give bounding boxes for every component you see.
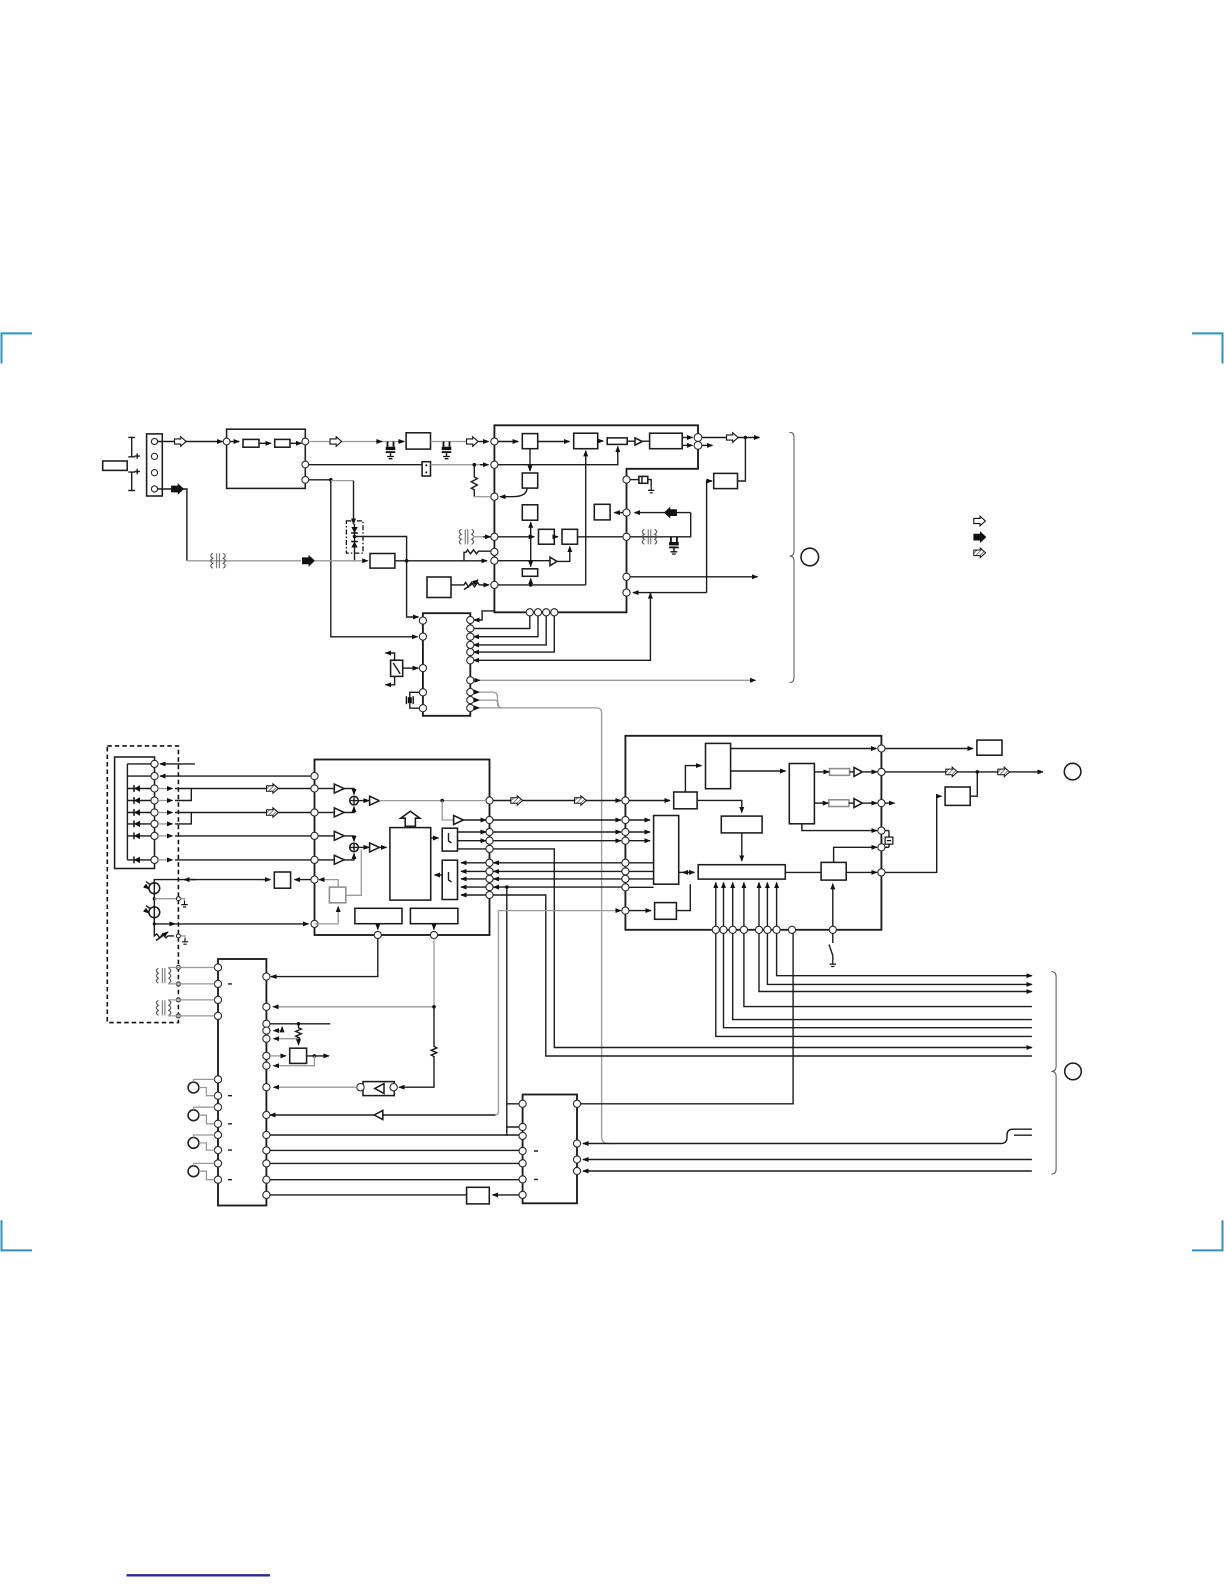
pin U4-B6 [764,926,771,933]
pin U1-L2 [491,461,498,468]
pin U3-L6 [311,876,318,883]
hatched arrow H3 [511,796,523,806]
pin U4-L5 [622,859,629,866]
pin U1-E5 [623,589,630,596]
opto U5 [363,1082,394,1096]
stub CN2R4 up arrow [274,1030,283,1032]
wire pinB1 to IC2 [474,616,530,629]
wire pinR5 row down [493,849,1032,1048]
wire pinB4 down [474,616,555,652]
wire opto to CN2R8 [274,1086,357,1088]
hatched arrow H2 [267,808,279,818]
pin U3-R5 [486,845,493,852]
pin U3-R4 [486,837,493,844]
box B4 [370,554,395,569]
jack J12 [188,1138,199,1149]
sum node S2 [350,843,359,852]
buffer T30 [854,767,862,776]
wire IC2-R10 bus to gray vertical [474,707,480,709]
wire pinE5 from vert706 [633,592,707,594]
pin KM-2 [151,773,158,780]
pin U4-R2 [878,768,885,775]
buffer T31 [854,799,862,808]
wire pinB9 to b35 [832,884,834,926]
pin U4-R1 [878,745,885,752]
pin IC6-L6 [519,1176,526,1183]
wire B41 out [307,1055,329,1057]
crystal filter X2 [639,476,648,483]
connector CN3 (2 dot) [422,462,430,476]
pin CN2-R14 [263,1191,270,1198]
pin U4-L7 [622,875,629,882]
pin IC2-L1 [419,617,426,624]
wire U4 to pinR6 [494,862,622,864]
pin CN2-R4 [263,1027,270,1034]
pin CN2-R11 [263,1147,270,1154]
var resistor VR1 [451,582,481,587]
pin IC2-L3 [419,665,426,672]
stub KM-2 [127,775,150,777]
buffer T20 [334,784,344,793]
connector CN1 [147,434,163,496]
wire CN2R14 to B40 [270,1194,467,1196]
open arrow A6 [727,433,739,443]
wire filled arrow into pinE2 [635,512,691,514]
wire U3B1 to CN2R1 [271,939,378,977]
wire b3 to T1 [627,440,634,442]
wire b1 to b5 [529,449,531,471]
pin CN2-L1 [214,964,221,971]
row8 wire to U3 [158,859,172,861]
coil T3 [642,529,656,544]
crystal X3 [885,831,889,848]
pin KM-8 [151,856,158,863]
hatched arrow H6 [998,767,1010,777]
wire B22 to B20 [435,874,443,876]
box U4.b34 [789,764,814,824]
pin CN2-L8 [214,1120,221,1127]
wire pinR6 to B36 [885,796,942,872]
wire into U1 pin1 [479,441,489,443]
footer rule [127,1574,271,1576]
box B25 [355,908,402,923]
ground G4 [830,961,836,967]
pin U1-B3 [543,609,550,616]
pin U4-L9 [622,907,629,914]
legend filled arrow [974,532,986,542]
wire vert434 resistor to opto [399,1007,437,1087]
up block arrow [401,811,420,826]
wire pinR6 to B22 [461,862,486,864]
arrow into U1 pin585 [481,584,489,586]
coil T11 [156,1000,170,1015]
pin CN2-L4 [214,1012,221,1019]
wire CN3 to U1 pin2 [431,464,486,466]
wire CN2R3 row [270,1023,330,1025]
wire pin1 to b1 [498,441,518,443]
wire vert506 to bottom box [507,887,520,1104]
row2 wire to U3 [160,775,311,777]
box B22 [442,860,457,899]
diode D15 [127,859,150,861]
coil T10 [156,968,170,983]
gray resistor RB2 [829,800,849,807]
wire B21 to pinR5 [458,848,487,850]
wire pinE4 out [630,576,757,578]
pin FL1 in [223,438,230,445]
feedthrough cap C2 [442,442,452,459]
brace tuner section [790,432,795,682]
jack J13 [188,1166,199,1177]
wire U4 gray in pinL9 [498,910,621,912]
pin U4-L2 [622,816,629,823]
pin U3-B2 [430,931,437,938]
legend hatched arrow [974,548,986,558]
pin IC6-L5 [519,1160,526,1167]
pin IC2-R10 [467,704,474,711]
wire S1 to IC2 [403,667,419,669]
wire pin L6 to amp T2 [498,560,550,562]
wire sensor mid tap [153,897,156,900]
pin KM-6 [151,820,158,827]
pin U4-B5 [755,926,762,933]
pin U3-R10 [486,891,493,898]
wire CN1-4 down [158,489,187,561]
pin U1-E1 [623,476,630,483]
resistor R2 [275,439,290,447]
pin U3-L4 [311,832,318,839]
wire sensor to U3 pin924 [154,918,178,924]
wire b32 up to b30 [685,766,701,792]
wire CN2R12 to IC6L5 [270,1162,519,1164]
box B23 [274,872,290,888]
pin CN2-R7 [263,1062,270,1069]
filled arrow A4 [302,556,314,566]
pin FL1 out2 [302,461,309,468]
pin CN2-L7 [214,1104,221,1111]
pin U3-R6 [486,859,493,866]
wire pinR4 row to U4 [493,840,621,842]
pin CN1-4 [151,486,157,492]
wire b30 to b34 [731,770,786,772]
wire pinB3 to IC2 [474,616,547,645]
pin U3-R7 [486,868,493,875]
pin CN2-R13 [263,1176,270,1183]
wire pinR3 stub [885,802,895,804]
battery B1 plus [135,453,140,458]
key matrix box SW10 [115,757,155,869]
pin CN2-R10 [263,1131,270,1138]
buffer T26 [442,801,453,820]
wire IC2-R7 out (gray stub) [474,679,480,681]
wire pinL4 to b33 [629,840,650,842]
pin IC2-L2 [419,633,426,640]
pin U4-L6 [622,868,629,875]
coil T4 at U1-L4 [459,529,473,544]
buffer T22 [334,831,344,840]
pin U4-B4 [740,926,747,933]
wire pinR10 to B22 [461,894,486,896]
box U1.b1 [522,434,537,449]
wire pinR10 down [493,895,1032,1056]
pin U3-L5 [311,856,318,863]
wire IC2-R9 curve [474,699,480,701]
wire pinR2 row to U4 [493,819,621,821]
wire B21 to pinR3 [458,831,487,833]
wire b4 to pinR2 [682,444,692,446]
switch S1 [391,660,403,676]
wire pinR7 to B22 [461,870,486,872]
box U4.b35 [821,862,846,880]
wire CN2R6 to B41 [270,1055,286,1057]
wire pinR8 to B22 [461,878,486,880]
filled arrow A2 [172,484,184,494]
wire pinR3 row to U4 [493,831,621,833]
box U1.b3 [607,438,627,445]
pin U1-E3 [623,533,630,540]
box U4.b32 [674,792,697,809]
pin U3-L2 [311,785,318,792]
row4 bracket [158,800,172,802]
buffer T25 [370,843,380,852]
pin CN2-L3 [214,996,221,1003]
pin U1-E2 [623,509,630,516]
wire FL1 out3 down to IC2 [309,480,418,637]
wire B25 to pinB1 [377,924,379,930]
junction pinR1 [744,436,748,440]
wire pinR1 row to U4 (hatched) [493,800,621,802]
wire vert706 to b12 [707,481,712,593]
wire B21 to pinR4 [458,840,487,842]
pin U4-L3 [622,828,629,835]
wire CN2R10 to IC6L3 [270,1127,519,1136]
pin U4-L4 [622,837,629,844]
pin IC2-R3 [467,633,474,640]
battery B2 plate [128,472,135,490]
pin U3-L3 [311,809,318,816]
pin U4-B7 [773,926,780,933]
pin U4-R3 [878,800,885,807]
pin U1-R1 [694,434,702,442]
box U2 [406,433,430,449]
registration mark top-left [2,333,33,363]
wire CN2R11 to IC6L4 [270,1149,519,1151]
wire FL1 internal [230,441,239,443]
wire B41 branch to CN2R7 [274,1056,315,1066]
wire bus3 [759,933,1032,991]
diode D14 [127,835,150,837]
pin CN2-R6 [263,1052,270,1059]
hatched arrow H1 [267,784,279,794]
wire b7 to b8 [554,536,558,538]
pin IC2-R8 [467,689,474,696]
wire bus4 [744,933,1032,1006]
junction varactor tap [353,535,357,539]
pin U3-R8 [486,875,493,882]
box U4.b39 [655,903,677,920]
row7 wire to U3 [158,835,172,837]
pin U3-L1 [311,773,318,780]
arrow into dashed [184,879,196,881]
pin CN2-L11 [214,1160,221,1167]
wire pinR1 out [702,437,760,439]
pin IC2-L4 [419,689,426,696]
wire B36 up to main out [970,772,977,796]
resistor R20 [296,1024,302,1044]
legend open arrow [974,516,986,526]
pin IC6-R2 [573,1140,580,1147]
filled arrow A5 [665,508,677,518]
wire pinB2 to IC2 [474,616,539,637]
wire into U1 pin 560 [464,560,487,562]
bottom box IC6 [523,1095,577,1204]
wire pinE2 to b11 [614,512,623,514]
pin U3-R9 [486,884,493,891]
wire vert649 down [649,593,651,594]
junction R3 tap [473,463,477,467]
connector CN2 [218,959,266,1206]
polarity marks [228,984,232,1180]
pin U1-B4 [551,609,558,616]
gray resistor RB1 [830,769,850,776]
pin FL1 out [302,438,309,445]
pin CN2-R12 [263,1160,270,1167]
wire U3 to opto line arrow [270,1114,384,1116]
wire b33 to pinL7 [629,878,653,880]
pin IC2-R5 [467,649,474,656]
wire b33 to b37 two way [679,871,695,873]
row6 bracket [158,823,172,825]
pin CN2-L9 [214,1131,221,1138]
pin IC6-R1 [573,1100,580,1107]
jack J10 [188,1082,199,1093]
wire bus5 [733,933,1032,1019]
pin U4-R5 [878,844,885,851]
wire b2 to b3 [598,440,604,442]
dashed panel border [107,746,178,1023]
box B12 [714,473,738,488]
pin CN2-L12 [214,1176,221,1183]
open arrow A3 [467,437,479,447]
wire pinL1 to b32 [629,800,670,802]
wire pinL3 to b33 [629,831,650,833]
wire R1-R2 [259,442,271,444]
wire CN2R5 gray [274,1038,299,1040]
box B31 [977,740,1002,755]
node circle A [801,548,819,566]
diode D12 [127,812,150,814]
wire R3 to U1 pin3 [474,496,490,498]
pin U1-L7 [491,581,498,588]
hatched arrow H4 [575,796,587,806]
wire bus1 [777,933,1032,975]
pin IC2-R4 [467,641,474,648]
wire pinL2 to b33 [629,819,650,821]
wire pinR9 to B22 [461,886,486,888]
stub KM-1 [127,763,150,765]
resistor R4 on pin551 [464,550,491,561]
pin U1-B2 [534,609,541,616]
curve b5 to pin3 [500,488,527,497]
wire b2 down to row585 [585,451,587,585]
wire IC6R1 to U4 pinB8 [581,933,794,1103]
pin U4-L8 [622,884,629,891]
box U4.b33 [654,816,679,885]
wire b38 to b37 [741,833,743,861]
wire R2 out [290,442,302,444]
wire bus2 [767,933,1032,984]
pin U3-R2 [486,816,493,823]
wire bus6 [724,933,1032,1027]
audio IC U4 outline [625,736,881,930]
stub row1 [160,763,195,765]
wire varactor to vert406 [355,537,419,618]
buffer T23 [334,855,344,864]
wire vert745 to b12 [738,438,746,482]
registration mark top-right [1192,333,1223,363]
dsp core box B20 [390,828,431,901]
pin CN2-R5 [263,1035,270,1042]
wire U2 to C2 [431,441,467,443]
buffer T21 [334,808,344,817]
wire b4 to pinR1 [682,437,692,439]
brace output section [1051,972,1056,1175]
diode D11 [127,800,150,802]
pin CN2-R2 [263,1003,270,1010]
varactor box D1 (dash-dot) [346,521,363,553]
varactor diodes [354,524,356,561]
wire b1 to b2 [538,441,570,443]
row3 wire to U3 [158,788,172,790]
pin U4-B2 [720,926,727,933]
wire B20 to B21 [431,837,439,839]
pin U3-R1 [486,797,493,804]
wire b33 to pinL5 [629,862,653,864]
wire sensor row to U3 [154,880,270,883]
pin IC6-R4 [573,1167,580,1174]
wire CN2R13 to IC6L6 [270,1179,519,1181]
diode D10 [127,788,150,790]
wire row537 up to b6 [530,522,532,537]
pin IC6-L4 [519,1147,526,1154]
wire T2 up to b8 [557,547,570,562]
junction FL1 out3 [329,478,333,482]
pin CN2-L2 [214,980,221,987]
gray box B24 [329,887,345,903]
polarity marks IC6 [534,1151,538,1179]
box U1.b2 [574,433,598,449]
antenna box J1 [103,461,128,470]
pin U1-E4 [623,573,630,580]
box U4.b37 long [698,865,785,879]
wire U4 to pinR9 junction [494,886,622,888]
pin U1-R2 [694,442,702,450]
wire b30 to pinR1 [731,748,877,750]
battery B1 plate [128,437,135,456]
wire pinB9 switch [832,933,834,943]
wire b9 down to row585 [530,579,532,585]
pin IC2-R2 [467,625,474,632]
junction sensor bottom [153,922,156,925]
wire IC6L7 to B40 [493,1194,520,1196]
open arrow A1 [175,437,187,447]
wire elbow to row537 [630,513,691,537]
pin CN1-3 [151,470,157,476]
pin U1-B1 [526,609,533,616]
pin U1-L6 [491,557,498,564]
box B40 [467,1187,490,1204]
wire bus7 [716,933,1032,1036]
